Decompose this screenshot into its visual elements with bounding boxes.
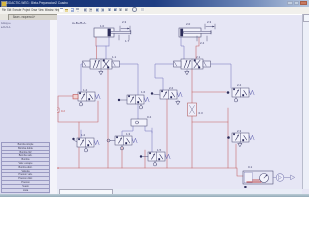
svg-text:0.1: 0.1 [248,165,253,169]
svg-text:A+B+/B-A-: A+B+/B-A- [72,21,86,25]
svg-text:1.5: 1.5 [157,148,162,152]
svg-text:2.3: 2.3 [207,20,212,24]
svg-text:2.3: 2.3 [122,20,127,24]
svg-text:1.1: 1.1 [112,55,117,59]
svg-text:1.6: 1.6 [141,90,146,94]
svg-text:0.4: 0.4 [147,115,152,119]
svg-text:2.1: 2.1 [196,55,201,59]
svg-text:1.0: 1.0 [100,24,105,28]
svg-text:2.0: 2.0 [186,22,191,26]
svg-text:0.3: 0.3 [199,111,204,115]
svg-text:2.2: 2.2 [169,86,174,90]
svg-text:2.4: 2.4 [237,83,242,87]
svg-text:0.2: 0.2 [61,109,65,113]
svg-text:1.4: 1.4 [83,88,88,92]
svg-text:2.4: 2.4 [200,41,205,45]
svg-text:2.3: 2.3 [237,129,242,133]
svg-text:1.3: 1.3 [126,132,131,136]
svg-text:1.2: 1.2 [81,133,86,137]
